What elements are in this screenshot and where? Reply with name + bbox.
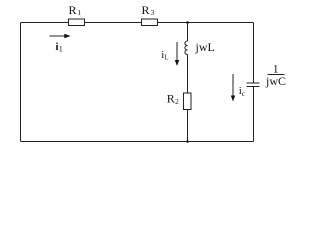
node junction top — [186, 21, 189, 24]
wire bottom — [21, 141, 254, 143]
current arrow iL — [161, 42, 179, 66]
wire top segment 3 — [158, 22, 254, 24]
svg-text:jwL: jwL — [195, 40, 215, 54]
resistor R2 — [167, 92, 191, 110]
node junction bottom — [186, 140, 189, 143]
inductor jwL — [185, 40, 215, 55]
svg-text:L: L — [164, 54, 168, 62]
svg-text:1: 1 — [59, 45, 63, 54]
wire right branch upper — [253, 23, 255, 84]
resistor R3 — [142, 3, 158, 26]
svg-text:jwC: jwC — [265, 74, 286, 88]
wire left vertical — [20, 23, 22, 142]
svg-text:3: 3 — [151, 8, 155, 17]
current arrow ic — [231, 74, 245, 102]
resistor R1 — [69, 3, 85, 26]
svg-text:R: R — [142, 3, 150, 17]
wire middle branch upper — [187, 23, 189, 42]
svg-text:2: 2 — [175, 98, 179, 106]
current arrow i1 — [50, 34, 71, 54]
wire middle branch lower — [187, 110, 189, 142]
wire middle branch mid — [187, 55, 189, 94]
value label 1/jwC — [265, 64, 286, 89]
svg-text:c: c — [242, 90, 245, 98]
wire top segment 2 — [85, 22, 142, 24]
wire top segment 1 — [21, 22, 69, 24]
svg-text:R: R — [69, 3, 77, 17]
svg-text:1: 1 — [78, 8, 82, 17]
svg-text:R: R — [167, 92, 175, 106]
capacitor C plates — [247, 83, 260, 87]
wire right branch lower — [253, 87, 255, 142]
